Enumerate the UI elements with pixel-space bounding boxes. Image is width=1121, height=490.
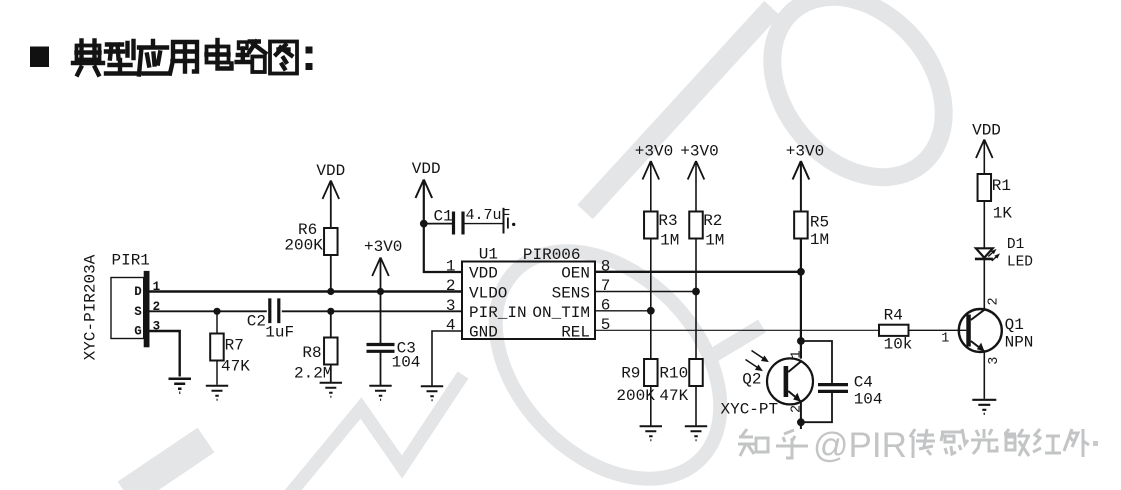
svg-text:VLDO: VLDO	[469, 284, 507, 302]
wire VDD to R1	[983, 140, 985, 175]
wire R2 to R10	[695, 239, 697, 360]
wire C4 loop bottom	[801, 391, 832, 422]
capacitor C4	[818, 385, 848, 392]
应	[139, 41, 168, 75]
svg-text:R2: R2	[703, 212, 722, 230]
resistor R4	[879, 325, 909, 336]
svg-text:SENS: SENS	[552, 284, 590, 302]
svg-text:XYC-PIR203A: XYC-PIR203A	[82, 254, 100, 360]
wire VDD to R6	[330, 181, 332, 229]
wire Q1 emitter	[983, 352, 985, 399]
diode D1 LED	[975, 248, 1000, 261]
wire R8 top	[330, 311, 332, 337]
wire R10 bottom	[695, 386, 697, 426]
svg-text:U1: U1	[479, 246, 498, 264]
svg-text:2: 2	[790, 405, 805, 413]
Q2 light arrows	[746, 351, 769, 372]
svg-text:200K: 200K	[616, 387, 655, 405]
junction (S/R7)	[213, 308, 220, 315]
wire +3V0 down to C3 (crosses S net)	[380, 258, 382, 345]
svg-text:R9: R9	[621, 365, 640, 383]
svg-text:OEN: OEN	[561, 265, 590, 283]
resistor R2	[689, 212, 703, 239]
wire R7 top	[216, 311, 218, 333]
svg-text:VDD: VDD	[412, 160, 441, 178]
wire +3V0 to R2	[695, 161, 697, 212]
wire S net left (pin S to C2)	[150, 310, 267, 312]
svg-text:R3: R3	[658, 212, 677, 230]
svg-text:104: 104	[392, 354, 421, 372]
wire C1 right lead	[465, 223, 504, 225]
ground (R9)	[640, 426, 662, 440]
svg-text:1M: 1M	[660, 232, 679, 250]
svg-text:3: 3	[446, 297, 456, 315]
svg-text:47K: 47K	[659, 387, 688, 405]
wire REL pin5 to R4	[595, 329, 879, 331]
svg-text:R4: R4	[884, 307, 903, 325]
svg-text:C2: C2	[247, 313, 266, 331]
型	[106, 41, 135, 74]
transistor Q2 phototransistor	[767, 358, 813, 404]
svg-text:R10: R10	[659, 365, 688, 383]
connector PIR1	[111, 271, 150, 347]
svg-text:Q2: Q2	[742, 371, 761, 389]
wire R4 to Q1 base	[909, 329, 967, 331]
junction (R6/D net)	[327, 288, 334, 295]
resistor R7	[210, 334, 224, 361]
wire R5 down to Q2 (crosses REL)	[800, 239, 802, 359]
svg-text:XYC-PT: XYC-PT	[721, 401, 779, 419]
典	[73, 41, 103, 75]
svg-text:1: 1	[790, 350, 805, 358]
svg-text:1: 1	[446, 258, 456, 276]
wire +3V0 to R5	[800, 161, 802, 212]
svg-text:2.2M: 2.2M	[294, 365, 332, 383]
svg-text:5: 5	[601, 316, 611, 334]
wire D net (pin D to U1 VLDO)	[150, 290, 463, 293]
ground (R10)	[685, 426, 707, 440]
ground (R7)	[206, 386, 228, 400]
svg-text:D1: D1	[1007, 237, 1024, 253]
svg-text:104: 104	[854, 391, 883, 409]
ground (Q1)	[972, 400, 996, 414]
junction (Q2 emitter/C4)	[797, 418, 805, 426]
junction (VDD/C1)	[420, 220, 428, 228]
svg-text:+3V0: +3V0	[786, 143, 824, 161]
svg-text:NPN: NPN	[1005, 334, 1034, 352]
svg-text:LED: LED	[1007, 254, 1033, 270]
wire C3 bottom	[380, 351, 382, 385]
svg-text:2: 2	[446, 277, 456, 295]
junction (R5/Q2/C4)	[797, 337, 805, 345]
svg-text:R5: R5	[810, 214, 829, 232]
svg-text:C4: C4	[854, 374, 873, 392]
wire R7 bottom	[216, 361, 218, 385]
capacitor C1	[454, 212, 464, 235]
wire U1 GND pin4	[432, 331, 462, 386]
svg-text:+3V0: +3V0	[635, 143, 673, 161]
ground (G pin)	[169, 379, 192, 393]
resistor R10	[689, 359, 703, 386]
svg-text:VDD: VDD	[469, 265, 498, 283]
路	[237, 42, 266, 73]
svg-text:1M: 1M	[810, 231, 829, 249]
svg-text:VDD: VDD	[972, 122, 1001, 140]
svg-text:G: G	[134, 325, 142, 339]
svg-text:1M: 1M	[705, 232, 724, 250]
title text 典型应用电路图： (drawn strokes)	[73, 40, 297, 75]
ground (R8)	[320, 383, 342, 397]
svg-text:47K: 47K	[221, 358, 250, 376]
电	[207, 40, 232, 69]
resistor R5	[794, 212, 808, 239]
wire R3 to R9 (crosses pin7/pin8/pin5)	[650, 239, 652, 360]
resistor R6	[324, 228, 338, 255]
svg-text:VDD: VDD	[316, 162, 345, 180]
title colon	[306, 47, 313, 54]
junction (ON_TIM/R3)	[647, 307, 655, 315]
wire R9 bottom	[650, 386, 652, 426]
svg-text:1K: 1K	[993, 205, 1013, 223]
ground (U1 GND)	[421, 386, 443, 400]
wire G net	[150, 331, 180, 377]
用	[170, 42, 197, 74]
capacitor C3	[367, 345, 395, 352]
junction (+3V0/D net)	[377, 288, 384, 295]
svg-text:GND: GND	[469, 324, 498, 342]
svg-text:3: 3	[987, 357, 1002, 365]
wire S net right (C2 to U1 PIR_IN)	[282, 310, 462, 312]
wire SENS pin7 to R2 net	[595, 291, 696, 293]
wire OEN pin8 to R5 net	[595, 271, 801, 273]
wire +3V0 to R3	[650, 161, 652, 212]
resistor R8	[324, 338, 338, 365]
svg-text:REL: REL	[561, 324, 590, 342]
svg-text:C1: C1	[434, 208, 453, 226]
resistor R3	[644, 212, 658, 239]
capacitor C2	[270, 298, 279, 323]
svg-text:PIR_IN: PIR_IN	[469, 304, 527, 322]
wire R8 bottom	[330, 365, 332, 383]
svg-text:R7: R7	[225, 337, 244, 355]
svg-text:PIR1: PIR1	[112, 252, 150, 270]
title bullet square	[30, 47, 49, 68]
svg-text:S: S	[134, 305, 142, 319]
svg-text:PIR006: PIR006	[523, 246, 581, 264]
op-amp U1 PIR006 body	[462, 262, 595, 340]
junction (SENS/R2)	[692, 288, 700, 296]
svg-text:+3V0: +3V0	[680, 143, 718, 161]
resistor R1	[978, 174, 992, 201]
svg-text:+3V0: +3V0	[364, 238, 402, 256]
node end bar after C1	[503, 208, 505, 234]
svg-text:1: 1	[941, 332, 949, 347]
svg-text:200K: 200K	[284, 237, 323, 255]
svg-text:ON_TIM: ON_TIM	[532, 304, 590, 322]
wire Q1 collector to D1	[983, 260, 985, 310]
resistor R9	[644, 359, 658, 386]
svg-text:D: D	[134, 285, 142, 299]
svg-text:2: 2	[987, 297, 1002, 305]
wire C4 loop top	[801, 341, 832, 385]
ground (C3)	[369, 386, 391, 400]
svg-text:10k: 10k	[884, 336, 913, 354]
wire Q2 emitter	[800, 402, 802, 429]
svg-text:Q1: Q1	[1005, 316, 1024, 334]
wire VDD down to U1 pin1	[424, 180, 462, 273]
svg-text:4: 4	[446, 317, 456, 335]
svg-text:1uF: 1uF	[265, 324, 294, 342]
wire ON_TIM pin6 to R3 net	[595, 310, 651, 312]
junction (OEN/R5)	[797, 268, 805, 276]
wire C1 left lead	[424, 223, 452, 225]
wire R6 bottom	[330, 255, 332, 292]
junction (R8/S net)	[327, 308, 334, 315]
svg-text:R8: R8	[302, 344, 321, 362]
svg-text:6: 6	[601, 296, 611, 314]
svg-text:R1: R1	[992, 177, 1011, 195]
transistor Q1 NPN	[959, 309, 1002, 352]
wire R1 to D1	[983, 201, 985, 248]
图	[270, 42, 297, 74]
